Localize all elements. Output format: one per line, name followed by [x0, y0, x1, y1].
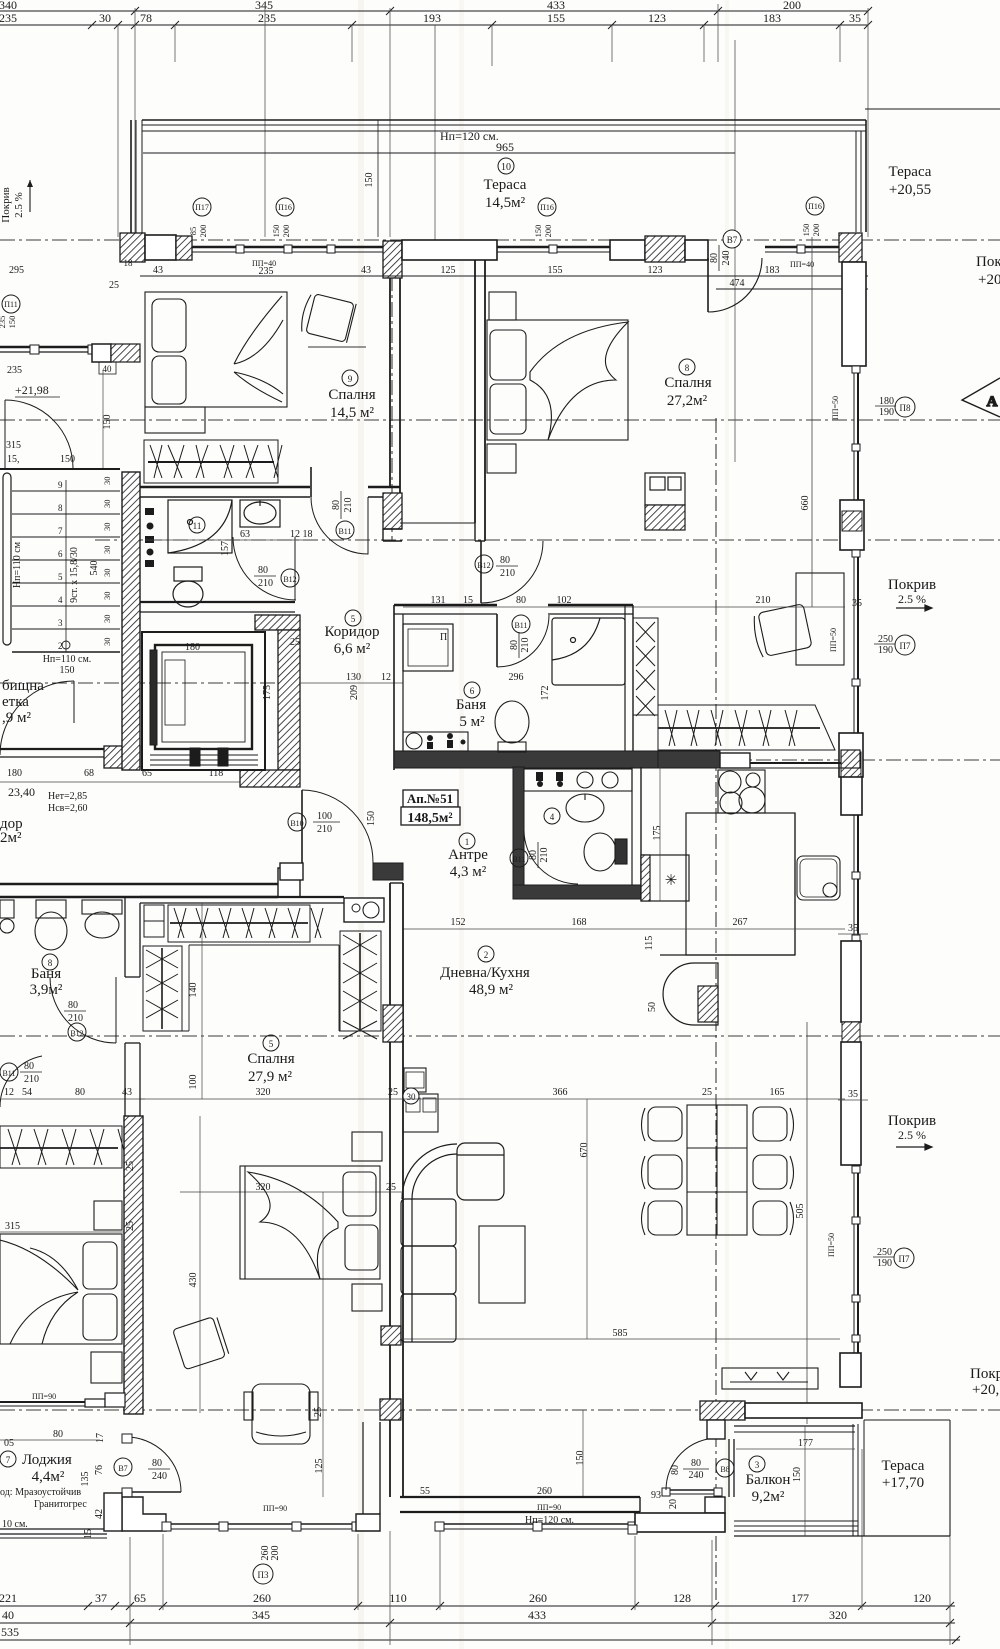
- svg-text:2: 2: [58, 641, 63, 651]
- svg-text:6,6 м²: 6,6 м²: [334, 641, 371, 657]
- bath 6 shower: [552, 618, 625, 685]
- bath 3.9 east wall: [125, 897, 140, 1116]
- wall above bath 3.9: [0, 868, 300, 897]
- svg-text:Покрив: Покрив: [888, 1113, 936, 1129]
- svg-text:15,: 15,: [7, 454, 20, 465]
- svg-text:П16: П16: [540, 203, 554, 212]
- svg-text:80: 80: [528, 850, 539, 860]
- svg-text:Балкон: Балкон: [746, 1472, 791, 1488]
- svg-text:9: 9: [58, 480, 63, 490]
- svg-text:210: 210: [756, 595, 771, 606]
- svg-text:Баня: Баня: [31, 966, 61, 982]
- svg-text:209: 209: [349, 685, 360, 700]
- loggia bottom: [0, 1529, 107, 1538]
- terrace 10 top parapet: [131, 109, 1000, 237]
- svg-text:148,5м²: 148,5м²: [407, 811, 452, 826]
- svg-text:140: 140: [188, 983, 199, 998]
- svg-text:100: 100: [317, 811, 332, 822]
- svg-text:43: 43: [153, 265, 163, 276]
- svg-text:30: 30: [102, 638, 112, 647]
- dims under top wall: [140, 276, 868, 289]
- neighbor top-left wall with window y348: [0, 344, 140, 362]
- svg-text:150: 150: [271, 225, 281, 238]
- left: wardrobe band + wall + bed (cut room): [0, 1126, 128, 1168]
- svg-text:7: 7: [6, 1455, 11, 1465]
- svg-text:ПП=90: ПП=90: [537, 1503, 561, 1512]
- svg-text:235: 235: [0, 316, 7, 329]
- bottom extension verticals: [130, 1424, 950, 1645]
- kitchen counters right: [660, 770, 840, 955]
- svg-text:23,40: 23,40: [8, 785, 35, 799]
- svg-text:Покр: Покр: [976, 254, 1000, 270]
- svg-text:235: 235: [258, 11, 276, 25]
- WC 4: [513, 767, 643, 899]
- svg-text:40: 40: [2, 1608, 14, 1622]
- svg-text:315: 315: [6, 440, 21, 451]
- svg-text:200: 200: [281, 225, 291, 238]
- dining chairs: [642, 1107, 794, 1235]
- svg-text:125: 125: [441, 265, 456, 276]
- antre dims: [403, 928, 845, 930]
- WC4 door B11: [524, 830, 578, 884]
- bedroom 8 door B12: [481, 541, 543, 603]
- svg-text:1: 1: [465, 837, 470, 847]
- svg-text:190: 190: [877, 1258, 892, 1269]
- svg-text:30: 30: [102, 569, 112, 578]
- svg-text:150: 150: [801, 224, 811, 237]
- svg-text:175: 175: [652, 826, 663, 841]
- svg-text:76: 76: [94, 1465, 105, 1475]
- bedroom 5 bed: [240, 1132, 382, 1311]
- entry door arc at stair landing: [5, 400, 73, 468]
- bedroom 8 bed: [487, 292, 628, 473]
- svg-text:Тераса: Тераса: [889, 164, 932, 180]
- top dimension row 1: [0, 7, 872, 15]
- svg-text:П7: П7: [900, 641, 911, 651]
- svg-text:80: 80: [709, 253, 720, 263]
- svg-text:240: 240: [152, 1471, 167, 1482]
- kitchen tall unit with *: [641, 855, 689, 901]
- svg-text:В11: В11: [514, 621, 527, 630]
- door B7 top: [708, 258, 762, 312]
- svg-text:4,4м²: 4,4м²: [32, 1469, 65, 1485]
- svg-text:ПП=50: ПП=50: [829, 628, 838, 652]
- top dimension row 2: [0, 21, 872, 29]
- dim line y607 corridor/bath6/bedroom8: [403, 606, 845, 608]
- TV bench: [722, 1368, 818, 1389]
- svg-text:430: 430: [188, 1273, 199, 1288]
- svg-text:54: 54: [22, 1087, 32, 1098]
- living dims: [403, 1098, 845, 1100]
- svg-text:Гранитогрес: Гранитогрес: [34, 1499, 87, 1510]
- svg-text:В7: В7: [118, 1464, 127, 1473]
- svg-text:180: 180: [879, 396, 894, 407]
- svg-text:Покрив: Покрив: [0, 187, 12, 222]
- svg-text:80: 80: [53, 1429, 63, 1440]
- svg-text:2.5 %: 2.5 %: [898, 592, 926, 606]
- svg-text:80: 80: [691, 1458, 701, 1469]
- svg-text:80: 80: [500, 555, 510, 566]
- svg-text:4: 4: [58, 595, 63, 605]
- svg-text:6: 6: [58, 549, 63, 559]
- svg-text:9,2м²: 9,2м²: [752, 1489, 785, 1505]
- bottom dimension row B: [0, 1619, 955, 1627]
- svg-text:Нп=120 см.: Нп=120 см.: [440, 129, 499, 143]
- svg-text:150: 150: [7, 316, 17, 329]
- bedroom 9 east wall: [383, 278, 402, 541]
- svg-text:17: 17: [95, 1433, 106, 1443]
- svg-text:2.5 %: 2.5 %: [898, 1128, 926, 1142]
- bath 6 walls: [394, 605, 658, 770]
- svg-text:150: 150: [102, 415, 113, 430]
- svg-text:15: 15: [83, 1529, 94, 1539]
- svg-text:27,2м²: 27,2м²: [667, 393, 708, 409]
- svg-text:157: 157: [220, 541, 231, 556]
- svg-text:Коридор: Коридор: [325, 624, 380, 640]
- svg-text:193: 193: [423, 11, 441, 25]
- bedroom 5 dims: [188, 983, 398, 1474]
- bedroom 8 wardrobe L: [633, 618, 835, 750]
- svg-text:Нп=110 см.: Нп=110 см.: [43, 654, 92, 665]
- svg-text:25: 25: [702, 1087, 712, 1098]
- living room label: [478, 946, 494, 962]
- svg-text:35: 35: [848, 1089, 858, 1100]
- bedroom 8 west wall: [400, 260, 485, 541]
- bath 6 washing machine: [403, 624, 453, 671]
- svg-text:168: 168: [572, 917, 587, 928]
- svg-text:260: 260: [537, 1486, 552, 1497]
- svg-text:+17,70: +17,70: [882, 1475, 924, 1491]
- svg-text:100: 100: [188, 1075, 199, 1090]
- pokriv labels right: [888, 577, 936, 1142]
- balcony door B8: [662, 1438, 722, 1496]
- svg-text:В12: В12: [283, 575, 296, 584]
- bath 6 toilet: [495, 701, 529, 752]
- door B7 bottom left: [122, 1434, 181, 1497]
- svg-text:180: 180: [7, 768, 22, 779]
- svg-text:150: 150: [533, 225, 543, 238]
- svg-text:80: 80: [331, 500, 342, 510]
- svg-text:12: 12: [381, 672, 391, 683]
- svg-text:80: 80: [509, 640, 520, 650]
- svg-text:200: 200: [811, 224, 821, 237]
- svg-text:315: 315: [5, 1221, 20, 1232]
- svg-text:10: 10: [501, 162, 511, 173]
- svg-text:190: 190: [878, 645, 893, 656]
- svg-text:30: 30: [102, 477, 112, 486]
- svg-text:235: 235: [0, 11, 17, 25]
- living SE wall to balcony: [700, 1401, 862, 1439]
- svg-text:В11: В11: [338, 527, 351, 536]
- svg-text:177: 177: [791, 1591, 809, 1605]
- svg-text:бищна: бищна: [2, 678, 44, 694]
- bath 3.9 door B12: [50, 977, 116, 1043]
- svg-text:В10: В10: [290, 819, 303, 828]
- svg-text:30: 30: [99, 11, 111, 25]
- svg-text:ПП=40: ПП=40: [790, 260, 814, 269]
- svg-text:20: 20: [668, 1499, 679, 1509]
- bath 6 sink counter: [403, 732, 468, 751]
- bath 11 door B12: [233, 537, 296, 600]
- svg-text:296: 296: [509, 672, 524, 683]
- svg-text:183: 183: [763, 11, 781, 25]
- svg-text:585: 585: [613, 1328, 628, 1339]
- svg-text:150: 150: [364, 173, 375, 188]
- corridor walls bottom of stairs: [0, 746, 140, 768]
- svg-text:од: Мразоустойчив: од: Мразоустойчив: [0, 1487, 81, 1498]
- svg-text:240: 240: [721, 251, 732, 266]
- svg-text:25: 25: [125, 1161, 136, 1171]
- sofa L: [401, 1143, 504, 1342]
- svg-text:80: 80: [75, 1087, 85, 1098]
- bath 11 dims: [145, 539, 310, 541]
- Ap51 box: [401, 790, 460, 825]
- west wall of living room x390-403: [380, 883, 403, 1497]
- svg-text:43: 43: [122, 1087, 132, 1098]
- svg-text:3: 3: [58, 618, 63, 628]
- bedroom 9 label: [342, 370, 358, 386]
- svg-text:235: 235: [7, 365, 22, 376]
- svg-text:25: 25: [290, 637, 300, 648]
- svg-text:540: 540: [89, 561, 100, 576]
- svg-text:ПП=50: ПП=50: [831, 396, 840, 420]
- bottom dimension row C: [0, 1636, 960, 1644]
- svg-text:9ст. x 15,8/30: 9ст. x 15,8/30: [69, 547, 80, 603]
- svg-text:150: 150: [366, 811, 377, 826]
- bottom dimension row A: [0, 1602, 955, 1610]
- svg-text:80: 80: [152, 1458, 162, 1469]
- svg-text:180: 180: [185, 642, 200, 653]
- svg-text:11: 11: [193, 521, 202, 531]
- svg-text:Нет=2,85: Нет=2,85: [48, 791, 87, 802]
- corridor 5 label: [345, 610, 361, 626]
- svg-text:ПП=90: ПП=90: [263, 1504, 287, 1513]
- svg-text:210: 210: [520, 638, 531, 653]
- svg-text:Покри: Покри: [970, 1366, 1000, 1382]
- svg-text:В12: В12: [477, 561, 490, 570]
- svg-text:78: 78: [140, 11, 152, 25]
- svg-text:Спалня: Спалня: [664, 375, 711, 391]
- svg-text:965: 965: [496, 140, 514, 154]
- svg-text:Антре: Антре: [448, 847, 488, 863]
- svg-text:етка: етка: [2, 694, 29, 710]
- svg-text:В12: В12: [70, 1029, 83, 1038]
- coffee table: [479, 1226, 525, 1303]
- svg-text:ПП=50: ПП=50: [827, 1233, 836, 1257]
- svg-text:Нсв=2,60: Нсв=2,60: [48, 803, 88, 814]
- svg-text:Ап.№51: Ап.№51: [407, 791, 453, 806]
- svg-text:128: 128: [673, 1591, 691, 1605]
- wall south of bedroom8: kitchen top: [658, 750, 860, 768]
- svg-text:172: 172: [540, 686, 551, 701]
- svg-text:80: 80: [516, 595, 526, 606]
- bedroom 8 dresser with hatch: [645, 473, 685, 530]
- svg-text:260: 260: [253, 1591, 271, 1605]
- svg-text:130: 130: [346, 672, 361, 683]
- svg-text:120: 120: [913, 1591, 931, 1605]
- svg-text:35: 35: [852, 598, 862, 609]
- svg-text:8: 8: [58, 503, 63, 513]
- svg-text:55: 55: [420, 1486, 430, 1497]
- svg-text:5: 5: [58, 572, 63, 582]
- svg-text:5 м²: 5 м²: [459, 714, 485, 730]
- svg-text:Спалня: Спалня: [247, 1051, 294, 1067]
- svg-text:250: 250: [878, 634, 893, 645]
- svg-text:7: 7: [58, 526, 63, 536]
- svg-text:210: 210: [500, 568, 515, 579]
- svg-text:183: 183: [765, 265, 780, 276]
- bedroom 8 desk+chair right: [751, 573, 844, 665]
- top exterior wall of apartment: [120, 233, 862, 278]
- svg-text:240: 240: [689, 1470, 704, 1481]
- svg-text:А: А: [987, 394, 998, 410]
- svg-text:12 18: 12 18: [290, 529, 313, 540]
- svg-text:18: 18: [124, 258, 134, 268]
- svg-text:190: 190: [879, 407, 894, 418]
- svg-text:+20,5: +20,5: [972, 1382, 1000, 1398]
- svg-text:135: 135: [80, 1472, 91, 1487]
- dining table: [687, 1105, 747, 1235]
- bedroom 5 north wall: [140, 897, 384, 922]
- svg-text:В7: В7: [727, 235, 738, 245]
- svg-text:Спалня: Спалня: [328, 387, 375, 403]
- bedroom 5 wardrobes: [143, 905, 381, 1039]
- svg-text:123: 123: [648, 11, 666, 25]
- svg-text:В8: В8: [720, 1465, 729, 1474]
- corridor dims: [299, 682, 403, 684]
- bedroom 9 bed: [145, 292, 287, 433]
- right wall window labels: [827, 396, 915, 1269]
- svg-text:165: 165: [770, 1087, 785, 1098]
- svg-text:2: 2: [484, 950, 489, 960]
- svg-text:П3: П3: [258, 1570, 269, 1580]
- svg-text:2м²: 2м²: [0, 830, 22, 846]
- svg-text:123: 123: [648, 265, 663, 276]
- svg-text:ПП=40: ПП=40: [252, 259, 276, 268]
- svg-text:200: 200: [783, 0, 801, 12]
- svg-text:П16: П16: [278, 203, 292, 212]
- svg-text:5: 5: [269, 1039, 274, 1049]
- svg-text:П8: П8: [900, 403, 911, 413]
- svg-text:30: 30: [407, 1092, 417, 1102]
- svg-text:27,9 м²: 27,9 м²: [248, 1069, 292, 1085]
- svg-text:П16: П16: [808, 202, 822, 211]
- svg-text:40: 40: [103, 364, 113, 374]
- svg-text:В11: В11: [2, 1069, 15, 1078]
- svg-text:30: 30: [102, 546, 112, 555]
- bedroom 5 label: [263, 1035, 279, 1051]
- appliance boxes on wall: [403, 1068, 438, 1132]
- svg-text:155: 155: [547, 11, 565, 25]
- svg-text:6: 6: [470, 686, 475, 696]
- scan creases: [358, 0, 364, 1649]
- bathroom 11: [168, 500, 280, 607]
- balcony outline: [628, 1420, 950, 1536]
- svg-text:25: 25: [109, 280, 119, 291]
- svg-text:50: 50: [647, 1002, 658, 1012]
- svg-text:30: 30: [102, 615, 112, 624]
- svg-text:320: 320: [256, 1087, 271, 1098]
- svg-text:✳: ✳: [665, 873, 678, 889]
- svg-text:80: 80: [258, 565, 268, 576]
- svg-text:Покрив: Покрив: [888, 577, 936, 593]
- west wall of bedroom9/bath11/elevator x122-140: [122, 472, 140, 770]
- svg-text:221: 221: [0, 1591, 17, 1605]
- svg-text:П7: П7: [899, 1254, 910, 1264]
- svg-text:320: 320: [829, 1608, 847, 1622]
- svg-text:37: 37: [95, 1591, 107, 1605]
- svg-text:200: 200: [543, 225, 553, 238]
- svg-text:474: 474: [730, 278, 745, 289]
- svg-text:43: 43: [361, 265, 371, 276]
- south wall living + window: [400, 1497, 640, 1531]
- svg-text:25: 25: [125, 1221, 136, 1231]
- svg-text:210: 210: [539, 848, 550, 863]
- svg-text:152: 152: [451, 917, 466, 928]
- bedroom 9 chair: [299, 292, 356, 343]
- svg-text:210: 210: [258, 578, 273, 589]
- bath11/bedroom9 divider wall y600-612: [140, 602, 295, 612]
- right exterior wall: [839, 262, 866, 1387]
- svg-text:2.5 %: 2.5 %: [13, 192, 25, 218]
- svg-text:260: 260: [529, 1591, 547, 1605]
- svg-text:345: 345: [252, 1608, 270, 1622]
- bath 3.9 fixtures: [0, 900, 122, 950]
- right wall vertical dims 660/505: [807, 237, 812, 1424]
- svg-text:+20,55: +20,55: [889, 182, 931, 198]
- storage door arc: [0, 681, 74, 755]
- svg-text:366: 366: [553, 1087, 568, 1098]
- svg-text:Лоджия: Лоджия: [22, 1452, 72, 1468]
- bedroom 5 desk + chairs: [173, 1316, 318, 1444]
- svg-text:65: 65: [134, 1591, 146, 1605]
- svg-text:Тераса: Тераса: [484, 177, 527, 193]
- staircase: [0, 469, 120, 652]
- svg-text:5: 5: [351, 614, 356, 624]
- svg-text:175: 175: [262, 685, 273, 700]
- bedroom 9 south wall + door B11: [140, 487, 400, 497]
- svg-text:12: 12: [4, 1087, 14, 1098]
- svg-text:210: 210: [24, 1074, 39, 1085]
- bedroom 8 label: [679, 359, 695, 375]
- svg-text:433: 433: [528, 1608, 546, 1622]
- svg-text:4,3 м²: 4,3 м²: [450, 864, 487, 880]
- svg-text:ПП=90: ПП=90: [32, 1392, 56, 1401]
- svg-text:150: 150: [60, 665, 75, 676]
- svg-text:660: 660: [800, 496, 811, 511]
- bedroom 9 wardrobe: [144, 440, 282, 483]
- bath6 east wall: [624, 605, 626, 751]
- svg-text:Дневна/Кухня: Дневна/Кухня: [440, 965, 530, 981]
- svg-text:505: 505: [795, 1204, 806, 1219]
- svg-text:8: 8: [685, 363, 690, 373]
- svg-text:Нп=110 см: Нп=110 см: [12, 541, 23, 588]
- A pennant right edge: [962, 378, 1000, 417]
- svg-text:670: 670: [579, 1143, 590, 1158]
- svg-text:3,9м²: 3,9м²: [30, 982, 63, 998]
- svg-text:63: 63: [240, 529, 250, 540]
- svg-text:+21,98: +21,98: [15, 383, 49, 397]
- svg-text:210: 210: [68, 1013, 83, 1024]
- svg-text:93: 93: [651, 1490, 661, 1501]
- svg-text:80: 80: [68, 1000, 78, 1011]
- svg-text:35: 35: [849, 11, 861, 25]
- svg-text:85: 85: [188, 227, 198, 236]
- dims y1096 left: [0, 1098, 145, 1100]
- svg-text:210: 210: [317, 824, 332, 835]
- svg-text:Тераса: Тераса: [882, 1458, 925, 1474]
- bedroom5 south wall with window: [104, 1422, 380, 1531]
